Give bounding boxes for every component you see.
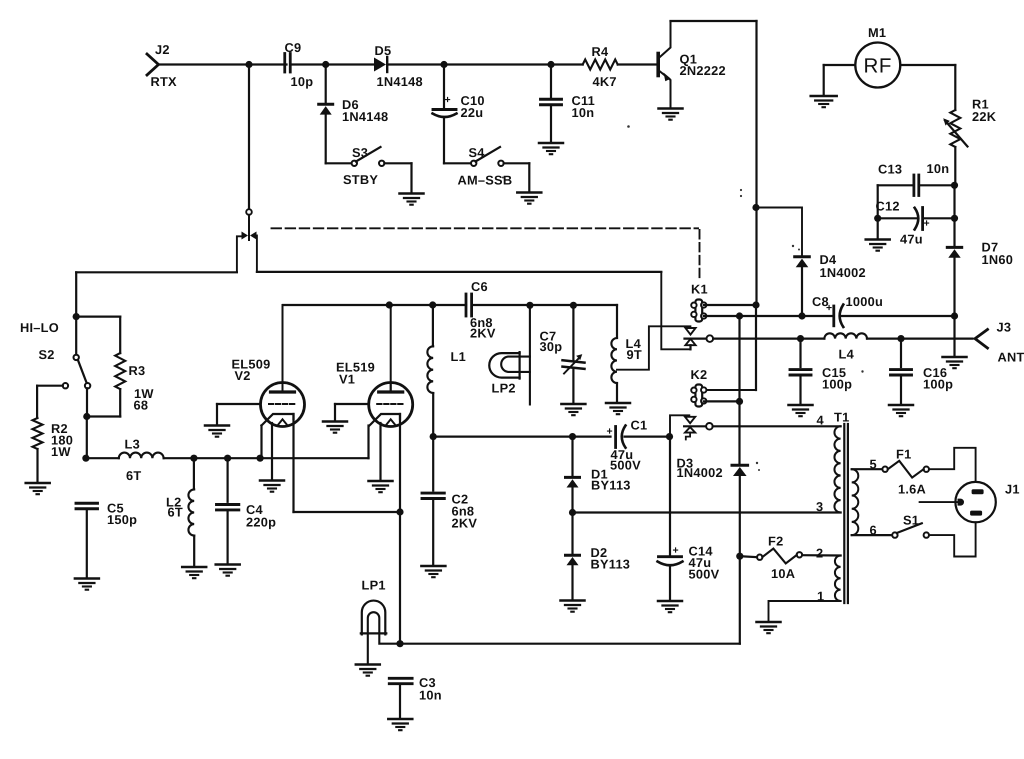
svg-text:S4: S4	[469, 145, 486, 160]
svg-text:10n: 10n	[419, 688, 442, 703]
svg-text:S3: S3	[352, 145, 368, 160]
svg-text:C1: C1	[631, 418, 648, 433]
svg-text:ANT: ANT	[998, 350, 1024, 365]
svg-text:4: 4	[817, 413, 825, 428]
svg-text:100p: 100p	[923, 377, 953, 392]
svg-text:J3: J3	[997, 320, 1012, 335]
svg-text:10p: 10p	[291, 74, 314, 89]
svg-text:220p: 220p	[246, 515, 276, 530]
svg-text:500V: 500V	[689, 567, 720, 582]
svg-text:9T: 9T	[627, 347, 642, 362]
svg-text:C6: C6	[471, 279, 488, 294]
svg-text:1N4148: 1N4148	[377, 74, 423, 89]
svg-text:V1: V1	[339, 372, 355, 387]
svg-text:100p: 100p	[822, 377, 852, 392]
svg-text:500V: 500V	[610, 458, 641, 473]
svg-text:V2: V2	[235, 368, 251, 383]
svg-text:L4: L4	[839, 347, 855, 362]
svg-text:1000u: 1000u	[846, 294, 884, 309]
svg-text:10n: 10n	[572, 105, 595, 120]
svg-text:C8: C8	[812, 294, 829, 309]
svg-text:C9: C9	[285, 40, 302, 55]
svg-text:+: +	[607, 426, 613, 438]
svg-text:L1: L1	[451, 349, 466, 364]
svg-text:J1: J1	[1005, 482, 1020, 497]
svg-text:R4: R4	[592, 44, 609, 59]
svg-text:1N4002: 1N4002	[820, 265, 866, 280]
svg-text:HI–LO: HI–LO	[20, 320, 59, 335]
svg-text:+: +	[445, 94, 451, 106]
svg-text:47u: 47u	[900, 232, 923, 247]
svg-text:3: 3	[816, 499, 823, 514]
svg-text:D5: D5	[375, 43, 392, 58]
svg-text:10A: 10A	[771, 566, 795, 581]
svg-text:STBY: STBY	[343, 172, 378, 187]
svg-text:BY113: BY113	[591, 478, 631, 493]
svg-text:R3: R3	[129, 363, 146, 378]
svg-text:6T: 6T	[126, 468, 141, 483]
svg-text:L3: L3	[125, 437, 140, 452]
svg-text:6T: 6T	[168, 505, 183, 520]
svg-text:150p: 150p	[107, 512, 137, 527]
svg-text:1W: 1W	[51, 444, 71, 459]
svg-text:30p: 30p	[540, 339, 563, 354]
svg-text:J2: J2	[155, 42, 170, 57]
svg-text:T1: T1	[834, 410, 849, 425]
svg-text:LP1: LP1	[362, 578, 386, 593]
svg-text:RTX: RTX	[151, 74, 178, 89]
svg-text:1.6A: 1.6A	[898, 482, 926, 497]
svg-text:1N4002: 1N4002	[677, 465, 723, 480]
svg-text:22K: 22K	[972, 109, 997, 124]
svg-text:RF: RF	[864, 55, 893, 78]
svg-text:1N60: 1N60	[982, 252, 1014, 267]
svg-text:2: 2	[816, 546, 823, 561]
svg-text:S2: S2	[39, 347, 55, 362]
svg-text:68: 68	[134, 398, 149, 413]
svg-text:2KV: 2KV	[452, 516, 478, 531]
svg-text:F2: F2	[768, 534, 783, 549]
svg-text:1N4148: 1N4148	[342, 109, 388, 124]
svg-text:K1: K1	[691, 282, 708, 297]
svg-text:K2: K2	[691, 367, 708, 382]
svg-text:F1: F1	[896, 447, 911, 462]
svg-text:C13: C13	[878, 162, 902, 177]
svg-text:+: +	[673, 545, 679, 557]
svg-text:C12: C12	[876, 199, 900, 214]
svg-text:2N2222: 2N2222	[680, 63, 726, 78]
svg-text:10n: 10n	[927, 161, 950, 176]
svg-text:2KV: 2KV	[470, 326, 496, 341]
svg-text:4K7: 4K7	[593, 74, 617, 89]
svg-text:M1: M1	[868, 25, 886, 40]
svg-text:AM–SSB: AM–SSB	[458, 173, 513, 188]
svg-text:S1: S1	[903, 513, 919, 528]
svg-text:22u: 22u	[461, 105, 484, 120]
svg-text:BY113: BY113	[591, 557, 631, 572]
svg-text:LP2: LP2	[492, 381, 516, 396]
